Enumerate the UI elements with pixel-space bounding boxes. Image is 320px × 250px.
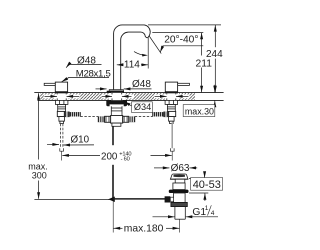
svg-text:Ø10: Ø10 [71, 135, 90, 146]
dim 114 [117, 64, 148, 66]
tee hex nut right [123, 116, 129, 122]
deck hatch fills [40, 93, 195, 100]
left valve lever [44, 83, 56, 85]
right valve corrugated nipple [152, 112, 168, 118]
svg-text:- 60: - 60 [121, 157, 130, 163]
drain seal ring [169, 190, 189, 193]
spout outlet vertical ref line [147, 38, 149, 69]
svg-text:211: 211 [196, 58, 213, 69]
outlet ext line [152, 32, 203, 34]
left valve base flange [55, 92, 68, 94]
spout shank below nut [111, 106, 122, 115]
white pockets behind deck arrows [44, 94, 80, 98]
dim max300 vertical [38, 93, 40, 159]
left valve corrugated nipple [64, 112, 80, 118]
drain neck [175, 179, 185, 183]
spout tailpiece below tee [112, 123, 121, 126]
rod knob on drain [165, 196, 171, 202]
rod coupling [108, 197, 115, 203]
left valve body [55, 82, 67, 92]
svg-text:M28x1,5: M28x1,5 [76, 69, 111, 80]
drain tailpipe [175, 207, 185, 220]
tee hex nut left [105, 116, 111, 122]
spout mounting nut below deck [106, 100, 127, 106]
drain locknut [171, 202, 187, 206]
deck hatched countertop [34, 93, 223, 101]
left pipe centerline ext [61, 151, 63, 160]
tee corrugated nipple right [128, 116, 135, 122]
flexible hose dashed left [80, 116, 98, 118]
left supply pipe dashed [60, 124, 63, 149]
left valve tee [57, 111, 64, 116]
svg-text:300: 300 [32, 171, 47, 181]
dim 211 vertical [201, 33, 203, 93]
right pipe end bracket [170, 148, 174, 151]
drain upper body [173, 183, 185, 190]
svg-text:114: 114 [124, 59, 140, 70]
spout base step [109, 90, 123, 91]
right valve mounting nut [165, 100, 178, 104]
svg-text:200: 200 [101, 152, 118, 163]
right valve base flange [165, 92, 178, 94]
right valve threaded shank [167, 104, 175, 111]
angle arc arrow [134, 52, 145, 56]
bottom reference line [34, 199, 109, 201]
dim 244 top ext line [148, 24, 221, 26]
label Ø34 boxed [132, 102, 153, 113]
dim max180 [114, 227, 123, 229]
spout outlet slant line [149, 36, 161, 54]
label max.30 boxed [183, 105, 215, 117]
rod centerline ext below [112, 201, 114, 233]
svg-text:max.180: max.180 [124, 223, 164, 234]
svg-text:20°-40°: 20°-40° [164, 35, 198, 46]
left valve shank in deck [57, 93, 67, 100]
drain lower body [174, 193, 186, 202]
svg-text:1: 1 [205, 205, 209, 212]
right valve body [165, 82, 177, 92]
spout base flange [107, 91, 124, 93]
svg-text:Ø34: Ø34 [134, 102, 151, 112]
drain plug cap [170, 174, 188, 179]
left valve tailpiece [59, 117, 65, 122]
right valve lever [177, 83, 189, 85]
dim 40-53 ext lines [189, 178, 208, 180]
left valve threaded shank [58, 104, 66, 111]
dim arrows hole left valve [45, 95, 58, 97]
spout tee body below deck [111, 116, 123, 124]
right pipe centerline ext [171, 151, 173, 160]
flexible hose dashed right [135, 116, 153, 118]
right supply pipe dashed [171, 123, 173, 149]
right valve tailpiece [169, 117, 175, 122]
label 40-53 boxed [191, 178, 223, 191]
dim max30 arrows [214, 85, 216, 92]
svg-text:Ø63: Ø63 [171, 163, 190, 174]
dim 244 vertical [214, 25, 216, 92]
right valve shank in deck [166, 93, 176, 100]
spout shank in deck [111, 93, 123, 101]
horizontal pop-up rod [113, 198, 166, 200]
tee corrugated nipple left [98, 116, 105, 122]
svg-text:Ø48: Ø48 [132, 79, 151, 90]
dim 40-53 arrows [204, 172, 206, 178]
dim 200 line [62, 154, 100, 156]
svg-text:max.30: max.30 [185, 106, 214, 116]
dim arrows hole spout [102, 95, 112, 97]
left pipe end bracket [60, 148, 64, 151]
label 20-40 leader [160, 46, 203, 53]
dim arrows hole right valve [155, 95, 167, 97]
svg-text:40-53: 40-53 [193, 179, 221, 191]
right valve tee [169, 111, 176, 116]
svg-text:4: 4 [211, 210, 215, 217]
left valve mounting nut [55, 100, 68, 104]
dim Ø63 [154, 167, 169, 169]
spout riser tube [114, 25, 151, 91]
pop-up rod [112, 126, 114, 145]
drain centerline ext [179, 219, 181, 232]
dim Ø48 spout arrows [96, 88, 107, 90]
leader Ø34 [124, 102, 132, 106]
